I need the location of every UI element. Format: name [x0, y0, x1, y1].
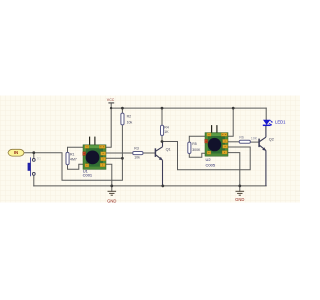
svg-text:10k: 10k [134, 156, 140, 160]
svg-text:10K: 10K [251, 136, 258, 140]
svg-text:R6: R6 [239, 135, 244, 139]
svg-text:Q1: Q1 [166, 147, 171, 151]
svg-text:C001: C001 [83, 173, 93, 178]
svg-text:R1: R1 [70, 152, 75, 156]
svg-text:IN: IN [14, 150, 18, 155]
svg-text:S1: S1 [37, 157, 41, 161]
svg-text:GND: GND [235, 197, 244, 202]
svg-text:4M7: 4M7 [70, 158, 77, 162]
svg-text:R5: R5 [192, 142, 197, 146]
svg-text:C005: C005 [206, 163, 216, 168]
svg-text:GND: GND [107, 198, 116, 203]
svg-text:1K: 1K [164, 130, 169, 134]
svg-text:R2: R2 [127, 114, 132, 118]
svg-text:LED1: LED1 [275, 120, 286, 125]
svg-text:U2: U2 [206, 157, 212, 162]
svg-text:Q2: Q2 [269, 137, 274, 141]
svg-text:VCC: VCC [107, 98, 115, 102]
svg-text:300K: 300K [192, 148, 201, 152]
svg-text:R4: R4 [164, 125, 169, 129]
svg-text:10k: 10k [127, 120, 133, 124]
svg-text:R3: R3 [134, 146, 139, 150]
